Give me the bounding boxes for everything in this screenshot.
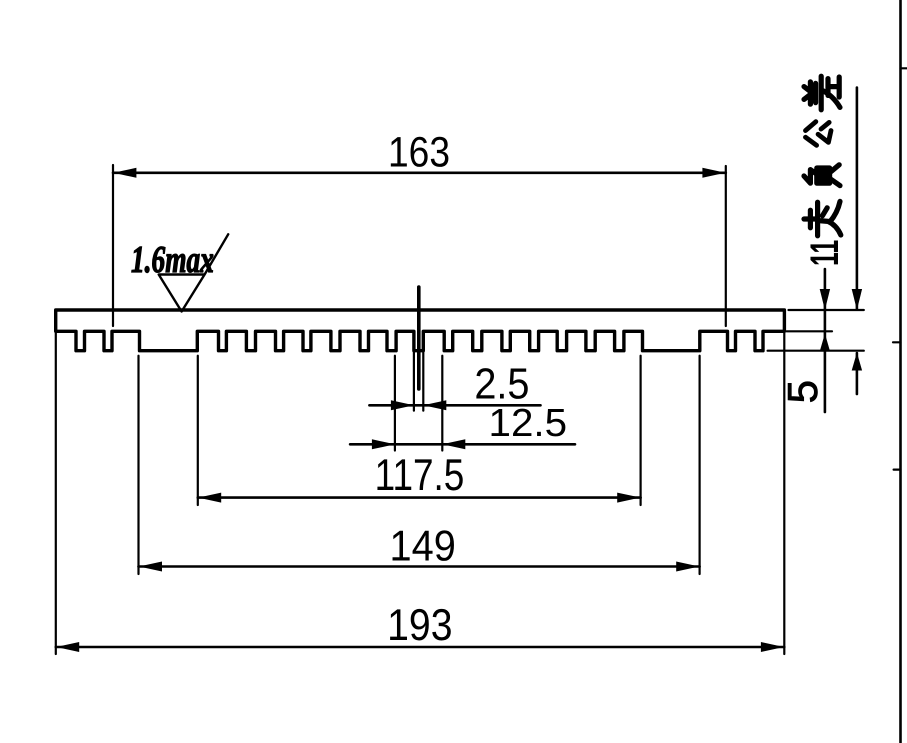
svg-text:163: 163 xyxy=(388,128,450,176)
heatsink profile outline xyxy=(56,310,785,351)
centerline xyxy=(417,287,421,389)
svg-text:149: 149 xyxy=(390,523,456,571)
hanzi zou (walk) xyxy=(804,201,841,235)
svg-text:193: 193 xyxy=(387,601,452,650)
svg-text:1.6max: 1.6max xyxy=(131,239,214,281)
arrowheads xyxy=(56,168,862,652)
hanzi fu (negative) xyxy=(804,165,840,186)
svg-text:5: 5 xyxy=(779,380,826,403)
vertical dimension text 11走负公差 xyxy=(803,76,847,266)
extension lines xyxy=(56,165,864,654)
svg-text:117.5: 117.5 xyxy=(375,451,465,500)
drawing frame border xyxy=(899,0,902,743)
dimension lines xyxy=(56,88,857,648)
hanzi gong (public) xyxy=(805,122,831,146)
svg-text:12.5: 12.5 xyxy=(489,402,568,445)
svg-text:11: 11 xyxy=(803,240,847,266)
hanzi cha (tolerance) xyxy=(804,76,840,110)
surface roughness symbol 1.6max xyxy=(159,234,229,311)
